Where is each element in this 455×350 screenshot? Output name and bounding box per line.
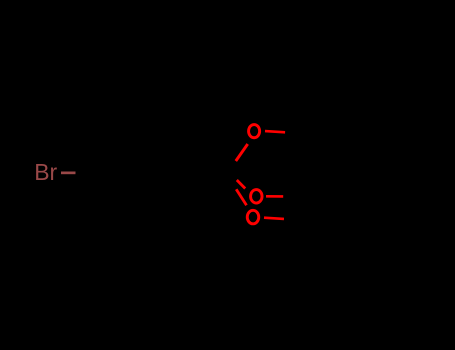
bond C4-CH2 ethyl (black) [352, 152, 388, 177]
bond O2-C3 black half [285, 132, 316, 133]
atom label O2 (top oxygen) [249, 125, 260, 138]
bond O7-C8 red half [264, 218, 284, 219]
bond C1-O7 red half [236, 189, 246, 205]
bond aryl C to C1 (black) [195, 173, 225, 174]
bond C3-C4 (black) [316, 133, 352, 177]
bond C1-O6 black half [225, 173, 237, 181]
ring double bond top [122, 136, 164, 139]
svg-text:Br: Br [34, 159, 57, 185]
atom label O6 (middle oxygen) [251, 190, 263, 204]
atom label O7 (bottom oxygen) [247, 210, 259, 224]
bond O2-C3 red half [265, 131, 285, 132]
bond C1-O6 red half [237, 180, 245, 189]
bond C8-C4 (black) [315, 177, 352, 221]
bond Br to ring, black half [76, 172, 91, 175]
bond O7-C8 black half [284, 219, 315, 221]
ring double bond lower-right [164, 176, 185, 212]
bond Br to ring, maroon half [61, 172, 76, 175]
bond C5-C4 (black) [310, 177, 352, 197]
bond O6-C5 black half [283, 195, 310, 198]
bond C1-O7 black half [225, 173, 236, 190]
bond C1-O2 red half [236, 144, 248, 161]
bond O6-C5 red half [266, 195, 283, 198]
bond CH2-CH3 ethyl (black) [388, 152, 428, 170]
ring double bond lower-left [101, 176, 122, 212]
bond C1-O2 black half [225, 161, 236, 173]
benzene ring (black on black) [90, 129, 195, 219]
